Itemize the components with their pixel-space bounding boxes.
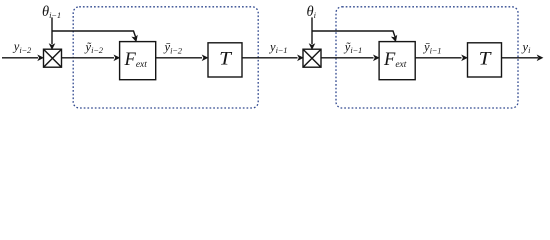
multiplier junction X2	[303, 49, 321, 67]
multiplier junction X1	[44, 49, 62, 67]
svg-text:ȳi−2: ȳi−2	[163, 40, 183, 55]
svg-text:yi−2: yi−2	[12, 40, 32, 55]
svg-text:ỹi−1: ỹi−1	[343, 40, 362, 55]
svg-text:T: T	[219, 49, 232, 70]
block T	[208, 43, 242, 77]
block F_ext2	[379, 42, 415, 80]
wire: theta branch into F_ext2 top	[312, 31, 395, 37]
wire: theta branch into F_ext top	[52, 31, 136, 37]
svg-text:T: T	[479, 49, 492, 70]
wire: T to X2	[242, 57, 298, 59]
block T2	[468, 43, 502, 77]
svg-text:yi−1: yi−1	[268, 40, 287, 55]
svg-text:yi: yi	[521, 40, 532, 55]
svg-text:ȳi−1: ȳi−1	[422, 40, 441, 55]
wire: theta_(i-1) down into X1	[51, 17, 53, 44]
wire: theta_i down into X2	[311, 17, 313, 44]
wire: X1 to F_ext	[62, 57, 115, 59]
dashed container module i-1	[73, 7, 258, 108]
wire: X2 to F_ext2	[321, 57, 374, 59]
block F_ext	[120, 42, 156, 80]
wire: F_ext2 to T2	[415, 57, 461, 59]
dashed container module i	[336, 7, 518, 108]
wire: input y_(i-2)	[2, 57, 38, 59]
wire: F_ext to T	[156, 57, 202, 59]
wire: output y_i	[502, 57, 539, 59]
svg-text:ỹi−2: ỹi−2	[84, 40, 104, 55]
